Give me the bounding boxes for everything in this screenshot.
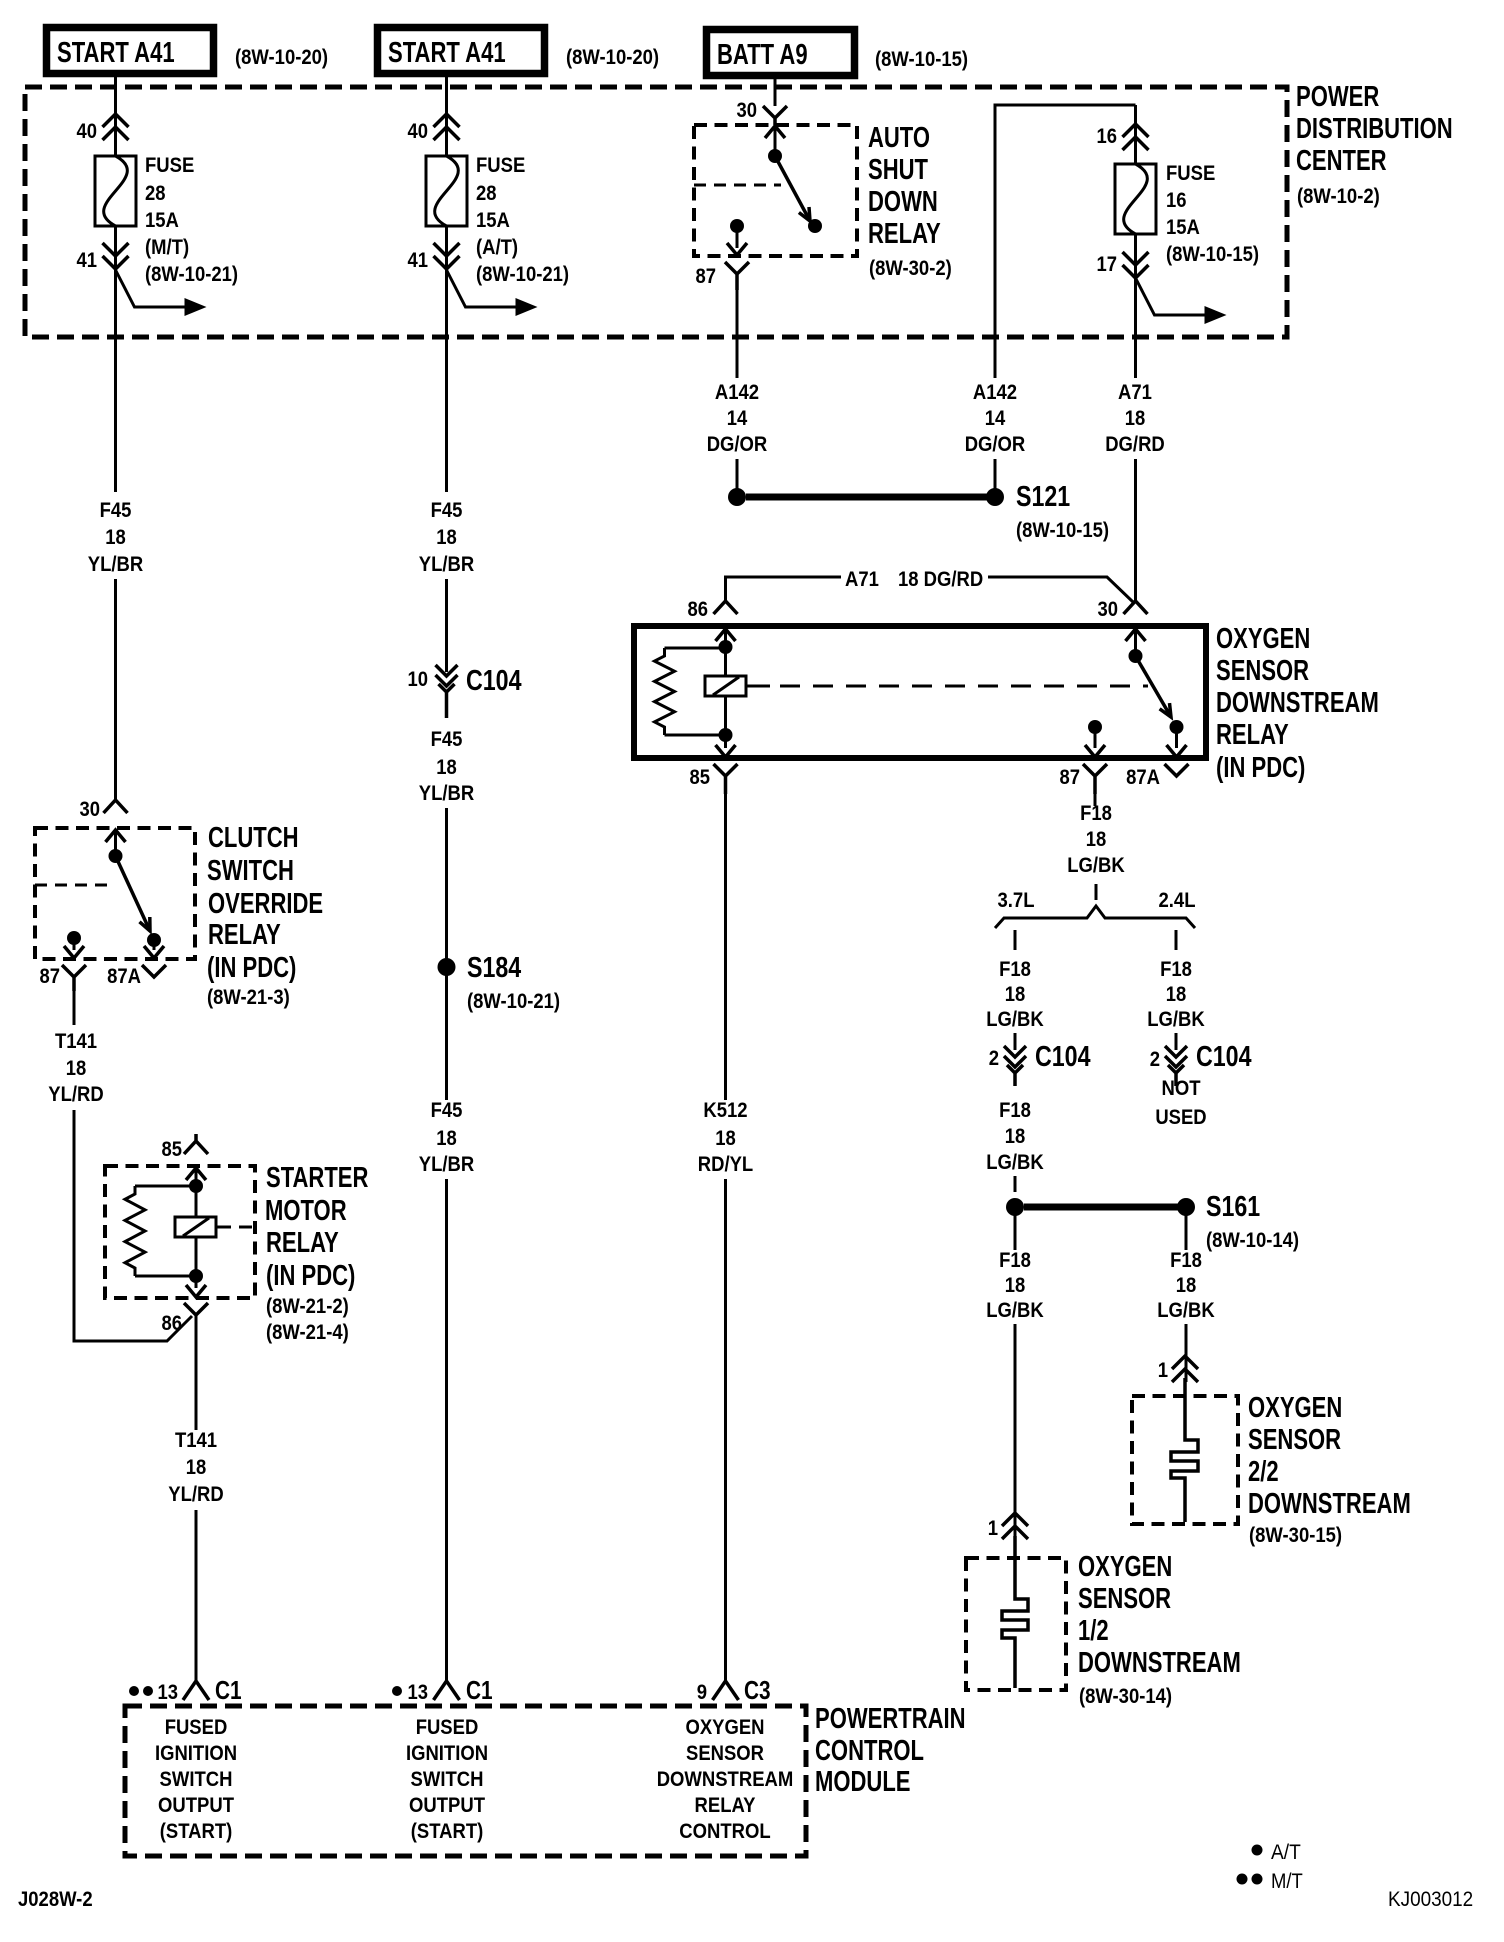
svg-text:(8W-10-21): (8W-10-21) (476, 263, 569, 286)
clutch relay common dot (109, 849, 123, 863)
svg-text:RELAY: RELAY (208, 919, 281, 951)
svg-text:1/2: 1/2 (1078, 1615, 1109, 1647)
svg-text:LG/BK: LG/BK (1147, 1008, 1205, 1031)
svg-text:F18: F18 (1080, 802, 1112, 825)
svg-text:YL/BR: YL/BR (419, 1153, 474, 1176)
svg-text:F18: F18 (1170, 1249, 1202, 1272)
svg-text:C1: C1 (466, 1675, 493, 1705)
svg-text:F18: F18 (999, 958, 1031, 981)
O2 sensor 2/2 element symbol (1171, 1378, 1198, 1522)
pin 17 connector at fuse 16 (1123, 252, 1149, 278)
svg-text:OUTPUT: OUTPUT (158, 1794, 234, 1817)
splice S121 bus line (746, 494, 987, 501)
wire F18 down to oxygen sensor 1/2 (1014, 1324, 1017, 1536)
wire T141 down and over to starter motor relay pin 86 (74, 1110, 192, 1341)
O2 relay coil top dot (719, 640, 733, 654)
fuse 28 15A (M/T) (95, 156, 136, 226)
svg-text:CLUTCH: CLUTCH (208, 822, 299, 854)
starter relay resistor (125, 1186, 145, 1276)
svg-text:FUSE: FUSE (1166, 162, 1215, 185)
clutch relay pin 87 dot and arrow out (67, 931, 81, 945)
svg-text:(M/T): (M/T) (145, 236, 189, 259)
O2 relay pin 85 arrow out of box (724, 735, 727, 748)
svg-text:F45: F45 (431, 1099, 463, 1122)
clutch relay actuation dashed line (35, 884, 111, 887)
svg-text:USED: USED (1155, 1106, 1206, 1129)
svg-text:87: 87 (1060, 766, 1081, 789)
svg-text:MODULE: MODULE (815, 1766, 911, 1798)
svg-text:DOWNSTREAM: DOWNSTREAM (1248, 1488, 1411, 1520)
wire T141 down to PCM pin 13 (195, 1510, 198, 1681)
svg-text:DOWN: DOWN (868, 186, 938, 218)
svg-text:18: 18 (436, 756, 457, 779)
svg-text:18: 18 (1005, 1125, 1026, 1148)
O2 relay switch blade (1136, 656, 1172, 717)
ASD relay pin 30 arrow into box (765, 126, 785, 138)
starter relay pin 85 arrow into box (186, 1168, 206, 1180)
svg-text:(A/T): (A/T) (476, 236, 518, 259)
svg-text:F18: F18 (999, 1099, 1031, 1122)
wire from START A41 col2 into PDC (445, 74, 448, 156)
svg-text:YL/BR: YL/BR (88, 553, 143, 576)
clutch switch override relay dashed box (35, 828, 195, 959)
svg-text:87: 87 (696, 265, 717, 288)
svg-text:F18: F18 (1160, 958, 1192, 981)
svg-text:13: 13 (408, 1681, 429, 1704)
ASD relay actuation dashed line (694, 184, 781, 187)
svg-text:15A: 15A (1166, 216, 1200, 239)
svg-text:OUTPUT: OUTPUT (409, 1794, 485, 1817)
ASD relay common dot (768, 149, 782, 163)
svg-text:15A: 15A (145, 209, 179, 232)
svg-text:OXYGEN: OXYGEN (1078, 1551, 1172, 1583)
wire A142 to splice S121 right dot (994, 459, 997, 490)
arrow to other circuits from fuse 28 col2 (447, 270, 518, 307)
svg-text:A71: A71 (845, 568, 879, 591)
svg-text:DOWNSTREAM: DOWNSTREAM (1078, 1647, 1241, 1679)
starter relay coil wire (195, 1186, 198, 1276)
svg-text:BATT A9: BATT A9 (717, 39, 808, 71)
svg-text:SWITCH: SWITCH (411, 1768, 484, 1791)
pin 30 connector at clutch relay (104, 800, 128, 813)
legend M/T dots (1237, 1874, 1248, 1885)
clutch relay switch end dot (147, 933, 161, 947)
svg-text:S184: S184 (467, 952, 521, 984)
svg-text:(8W-10-15): (8W-10-15) (875, 48, 968, 71)
clutch relay pin 30 arrow into box (106, 830, 126, 842)
svg-text:OVERRIDE: OVERRIDE (208, 888, 323, 920)
svg-text:C104: C104 (1196, 1041, 1252, 1073)
svg-text:1: 1 (1158, 1359, 1169, 1382)
svg-text:16: 16 (1166, 189, 1187, 212)
svg-text:18: 18 (715, 1127, 736, 1150)
svg-text:NOT: NOT (1162, 1077, 1201, 1100)
arrow to other circuits from fuse 16 (1136, 278, 1207, 315)
svg-text:C1: C1 (215, 1675, 242, 1705)
starter relay coil bottom dot (189, 1269, 203, 1283)
auto shut down relay dashed box (694, 125, 857, 256)
wire A142 tap inside PDC to fuse 16 feed (995, 105, 1136, 378)
svg-text:S121: S121 (1016, 481, 1070, 513)
svg-text:40: 40 (77, 120, 98, 143)
svg-text:(8W-30-2): (8W-30-2) (869, 257, 952, 280)
svg-text:RELAY: RELAY (1216, 719, 1289, 751)
wire below fuse 16 (1134, 234, 1137, 378)
svg-text:18 DG/RD: 18 DG/RD (898, 568, 983, 591)
svg-text:13: 13 (158, 1681, 179, 1704)
pin 86 connector at O2 relay (714, 601, 738, 614)
svg-text:18: 18 (1176, 1274, 1197, 1297)
pin 87 fork connector below ASD relay (725, 262, 749, 290)
splice dot left of S161 (1006, 1198, 1024, 1216)
wire 2.4L branch stub (1175, 930, 1178, 950)
svg-text:28: 28 (476, 182, 497, 205)
svg-text:RELAY: RELAY (266, 1227, 339, 1259)
pin 87A vee connector below clutch relay (142, 965, 166, 977)
svg-text:CONTROL: CONTROL (679, 1820, 771, 1843)
O2 relay actuation dashed line (780, 685, 1148, 688)
svg-text:(START): (START) (160, 1820, 233, 1843)
splice dot S161 (1177, 1198, 1195, 1216)
svg-text:40: 40 (408, 120, 429, 143)
splice S184 (438, 958, 456, 976)
svg-text:16: 16 (1097, 125, 1118, 148)
svg-text:S161: S161 (1206, 1191, 1260, 1223)
svg-text:SWITCH: SWITCH (160, 1768, 233, 1791)
svg-text:A142: A142 (715, 381, 759, 404)
wire 3.7L branch stub (1014, 930, 1017, 950)
svg-text:YL/RD: YL/RD (168, 1483, 223, 1506)
wire K512 from O2 relay pin 85 down (724, 794, 727, 1100)
svg-text:(8W-10-15): (8W-10-15) (1016, 519, 1109, 542)
svg-text:30: 30 (80, 798, 101, 821)
svg-text:2/2: 2/2 (1248, 1456, 1279, 1488)
O2 relay pin 30 arrow into box (1126, 629, 1146, 641)
starter motor relay dashed box (105, 1166, 255, 1298)
svg-text:IGNITION: IGNITION (406, 1742, 488, 1765)
svg-text:(8W-21-2): (8W-21-2) (266, 1295, 349, 1318)
ASD relay switch blade (775, 156, 810, 221)
wire F18 short segment to engine split brace (1095, 884, 1098, 900)
wire below S161 right dot (1185, 1215, 1188, 1250)
svg-text:IGNITION: IGNITION (155, 1742, 237, 1765)
svg-text:C3: C3 (744, 1675, 771, 1705)
svg-text:RELAY: RELAY (695, 1794, 756, 1817)
splice dot S121 (986, 488, 1004, 506)
svg-text:YL/RD: YL/RD (48, 1083, 103, 1106)
svg-text:18: 18 (1166, 983, 1187, 1006)
wire F18 down to oxygen sensor 2/2 (1185, 1324, 1188, 1382)
svg-text:LG/BK: LG/BK (986, 1151, 1044, 1174)
wire below fuse 28 col2 (445, 226, 448, 492)
starter relay coil symbol (175, 1217, 216, 1237)
wire F45 col2 down to PCM pin 13 (445, 1179, 448, 1681)
svg-text:FUSE: FUSE (476, 154, 525, 177)
svg-text:18: 18 (1086, 828, 1107, 851)
M/T dots for PCM pin 13 col1 (129, 1686, 139, 1696)
wire T141 from starter relay 86 down (195, 1315, 198, 1430)
svg-text:A142: A142 (973, 381, 1017, 404)
wire F45 col1 down to clutch switch override relay (114, 579, 117, 800)
svg-text:LG/BK: LG/BK (986, 1008, 1044, 1031)
svg-text:SENSOR: SENSOR (1078, 1583, 1171, 1615)
svg-text:C104: C104 (466, 665, 522, 697)
wire A142 to splice S121 left dot (736, 459, 739, 490)
ASD relay pin 87 dot and arrow out (730, 219, 744, 233)
svg-text:10: 10 (408, 668, 429, 691)
node START A41 (column 2) header box (378, 28, 545, 74)
engine variant split brace (995, 906, 1195, 928)
O2 relay coil symbol (705, 676, 746, 696)
wire 2.4L to connector C104 (1175, 1033, 1178, 1050)
svg-text:FUSED: FUSED (416, 1716, 479, 1739)
svg-text:DOWNSTREAM: DOWNSTREAM (657, 1768, 794, 1791)
svg-text:SENSOR: SENSOR (686, 1742, 764, 1765)
wire F45 col2 to splice S184 (445, 808, 448, 960)
O2 relay coil wire (724, 647, 727, 735)
svg-text:86: 86 (162, 1312, 183, 1335)
svg-text:SHUT: SHUT (868, 154, 928, 186)
svg-text:F45: F45 (100, 499, 132, 522)
svg-text:(IN PDC): (IN PDC) (207, 952, 296, 984)
fuse 16 15A (1115, 164, 1156, 234)
connector C104 pin 10 (436, 665, 458, 686)
wire F45 col2 to connector C104 (445, 579, 448, 672)
svg-text:(8W-10-21): (8W-10-21) (467, 990, 560, 1013)
wire F18 from O2 relay pin 87 (1094, 794, 1097, 806)
pin 41 connector (col2) (434, 243, 460, 269)
svg-text:41: 41 (77, 249, 98, 272)
svg-text:STARTER: STARTER (266, 1162, 368, 1194)
fuse 28 15A (A/T) (426, 156, 467, 226)
O2 sensor 1/2 element symbol (1002, 1536, 1028, 1688)
svg-text:MOTOR: MOTOR (265, 1195, 347, 1227)
svg-text:SENSOR: SENSOR (1216, 655, 1309, 687)
svg-text:(8W-10-2): (8W-10-2) (1297, 185, 1380, 208)
svg-text:POWER: POWER (1296, 81, 1379, 113)
svg-text:YL/BR: YL/BR (419, 553, 474, 576)
pin 87 fork connector below clutch relay (62, 965, 86, 991)
svg-text:SENSOR: SENSOR (1248, 1424, 1341, 1456)
svg-text:87: 87 (40, 965, 61, 988)
clutch relay pin 87A arrow out (153, 940, 156, 950)
svg-text:A71: A71 (1118, 381, 1152, 404)
pin 85 connector above starter relay (184, 1134, 208, 1154)
svg-text:9: 9 (697, 1681, 707, 1704)
svg-text:FUSED: FUSED (165, 1716, 228, 1739)
svg-text:DG/OR: DG/OR (965, 433, 1026, 456)
svg-text:18: 18 (186, 1456, 207, 1479)
svg-text:START A41: START A41 (388, 37, 506, 69)
connector C104 pin 2 (3.7L) (1004, 1046, 1026, 1067)
svg-text:41: 41 (408, 249, 429, 272)
pin 30 fork connector at ASD relay (763, 106, 787, 125)
svg-text:3.7L: 3.7L (998, 889, 1035, 912)
svg-text:2: 2 (1150, 1048, 1160, 1071)
wire below S184 (445, 975, 448, 1100)
pin 40 connector (col2) (434, 114, 460, 140)
svg-text:18: 18 (105, 526, 126, 549)
svg-text:OXYGEN: OXYGEN (1248, 1392, 1342, 1424)
pin 85 fork connector below O2 relay (714, 764, 738, 794)
svg-text:YL/BR: YL/BR (419, 782, 474, 805)
svg-text:KJ003012: KJ003012 (1388, 1888, 1473, 1911)
svg-text:2: 2 (989, 1047, 999, 1070)
svg-text:(8W-10-14): (8W-10-14) (1206, 1229, 1299, 1252)
O2 relay pin 86 arrow into box (716, 629, 736, 641)
pin 41 connector (col1) (103, 243, 129, 269)
pin 40 connector (col1) (103, 114, 129, 140)
svg-text:(8W-30-14): (8W-30-14) (1079, 1685, 1172, 1708)
pin 87A vee connector below O2 relay (1165, 764, 1189, 776)
svg-text:LG/BK: LG/BK (986, 1299, 1044, 1322)
svg-text:28: 28 (145, 182, 166, 205)
oxygen sensor downstream relay box (634, 626, 1206, 758)
wire A142 below ASD relay (736, 290, 739, 378)
starter relay pin 86 arrow out of box (195, 1276, 198, 1288)
svg-text:14: 14 (727, 407, 748, 430)
svg-text:T141: T141 (175, 1429, 217, 1452)
splice S161 bus line (1024, 1204, 1178, 1211)
svg-text:POWERTRAIN: POWERTRAIN (815, 1703, 966, 1735)
node START A41 (column 1) header box (47, 28, 214, 74)
O2 relay pin 87A arrow out of box (1175, 727, 1178, 748)
wire T141 below clutch relay 87 (73, 991, 76, 1025)
pin 86 vee connector below starter relay (184, 1303, 208, 1315)
oxygen sensor 1/2 downstream dashed box (966, 1558, 1066, 1690)
arrow to other circuits from fuse 28 col1 (116, 270, 187, 307)
pin 1 connector at O2 sensor 1/2 (1002, 1513, 1028, 1539)
svg-text:(START): (START) (411, 1820, 484, 1843)
wire A71 down to oxygen sensor downstream relay pin 30 (1134, 459, 1137, 601)
O2 relay pin 87 dot and arrow out (1088, 720, 1102, 734)
svg-text:J028W-2: J028W-2 (18, 1888, 93, 1911)
svg-text:(8W-30-15): (8W-30-15) (1249, 1524, 1342, 1547)
svg-text:LG/BK: LG/BK (1157, 1299, 1215, 1322)
svg-text:OXYGEN: OXYGEN (686, 1716, 765, 1739)
svg-text:86: 86 (688, 598, 709, 621)
svg-text:87A: 87A (107, 965, 141, 988)
svg-text:CENTER: CENTER (1296, 145, 1387, 177)
O2 relay switch end dot (1170, 720, 1184, 734)
svg-text:START A41: START A41 (57, 37, 175, 69)
wire 3.7L to connector C104 (1014, 1033, 1017, 1050)
svg-text:2.4L: 2.4L (1159, 889, 1196, 912)
connector C104 pin 2 (2.4L) (1165, 1046, 1187, 1067)
svg-text:(8W-10-20): (8W-10-20) (566, 46, 659, 69)
svg-text:LG/BK: LG/BK (1067, 854, 1125, 877)
svg-text:OXYGEN: OXYGEN (1216, 623, 1310, 655)
svg-text:DG/RD: DG/RD (1105, 433, 1165, 456)
svg-text:RD/YL: RD/YL (698, 1153, 754, 1176)
svg-text:F45: F45 (431, 499, 463, 522)
svg-text:18: 18 (1005, 1274, 1026, 1297)
svg-text:(8W-21-3): (8W-21-3) (207, 986, 290, 1009)
powertrain control module dashed box (125, 1706, 806, 1856)
svg-text:DISTRIBUTION: DISTRIBUTION (1296, 113, 1453, 145)
PCM pin 13 C1 connector (col2) (434, 1681, 460, 1700)
power distribution center dashed box (25, 87, 1287, 337)
legend A/T dot (1252, 1845, 1263, 1856)
svg-text:87A: 87A (1126, 766, 1160, 789)
pin 87 fork connector below O2 relay (1083, 764, 1107, 794)
O2 relay resistor (655, 648, 675, 735)
wire K512 down to PCM pin 9 (724, 1179, 727, 1681)
svg-text:30: 30 (737, 99, 758, 122)
svg-text:(8W-10-20): (8W-10-20) (235, 46, 328, 69)
svg-text:30: 30 (1098, 598, 1119, 621)
svg-text:17: 17 (1097, 253, 1118, 276)
O2 relay coil bottom dot (719, 728, 733, 742)
svg-text:A/T: A/T (1271, 1841, 1301, 1864)
svg-text:SWITCH: SWITCH (207, 855, 294, 887)
svg-text:C104: C104 (1035, 1041, 1091, 1073)
svg-text:AUTO: AUTO (868, 122, 930, 154)
svg-text:18: 18 (436, 1127, 457, 1150)
svg-text:14: 14 (985, 407, 1006, 430)
wire from START A41 col1 into PDC (114, 74, 117, 156)
svg-text:F45: F45 (431, 728, 463, 751)
svg-text:(IN PDC): (IN PDC) (266, 1260, 355, 1292)
svg-text:DOWNSTREAM: DOWNSTREAM (1216, 687, 1379, 719)
wire from BATT A9 down to ASD relay (774, 74, 777, 106)
PCM pin 13 C1 connector (col1) (183, 1681, 209, 1700)
splice dot left of S121 (728, 488, 746, 506)
wire below S161 left dot (1014, 1215, 1017, 1250)
svg-text:K512: K512 (703, 1099, 747, 1122)
starter relay coil top dot (189, 1179, 203, 1193)
wire below fuse 28 col1 (114, 226, 117, 492)
ASD relay switch end dot (808, 219, 822, 233)
svg-text:1: 1 (988, 1517, 999, 1540)
svg-text:DG/OR: DG/OR (707, 433, 768, 456)
svg-text:18: 18 (1005, 983, 1026, 1006)
oxygen sensor 2/2 downstream dashed box (1132, 1396, 1238, 1524)
svg-text:RELAY: RELAY (868, 218, 941, 250)
clutch relay switch blade (116, 856, 151, 931)
svg-text:F18: F18 (999, 1249, 1031, 1272)
A/T dot for PCM pin 13 col2 (392, 1686, 402, 1696)
svg-text:FUSE: FUSE (145, 154, 194, 177)
pin 16 connector at fuse 16 (1134, 105, 1137, 164)
svg-text:85: 85 (690, 766, 711, 789)
svg-text:M/T: M/T (1271, 1870, 1303, 1893)
svg-text:(8W-21-4): (8W-21-4) (266, 1321, 349, 1344)
svg-text:18: 18 (436, 526, 457, 549)
node BATT A9 header box (707, 30, 855, 76)
svg-text:(8W-10-21): (8W-10-21) (145, 263, 238, 286)
pin 30 connector at O2 relay (1124, 601, 1148, 614)
wire A71 18 DG/RD horizontal branch to relay pin 86 (726, 577, 842, 602)
svg-text:18: 18 (1125, 407, 1146, 430)
svg-text:(IN PDC): (IN PDC) (1216, 752, 1305, 784)
wire F18 to splice S161 (1014, 1176, 1017, 1192)
svg-text:T141: T141 (55, 1030, 97, 1053)
svg-text:(8W-10-15): (8W-10-15) (1166, 243, 1259, 266)
PCM pin 9 C3 connector (713, 1681, 739, 1700)
svg-text:18: 18 (66, 1057, 87, 1080)
svg-text:CONTROL: CONTROL (815, 1735, 924, 1767)
svg-text:15A: 15A (476, 209, 510, 232)
pin 1 connector at O2 sensor 2/2 (1172, 1356, 1198, 1382)
O2 relay switch common dot (1129, 649, 1143, 663)
svg-text:85: 85 (162, 1138, 183, 1161)
